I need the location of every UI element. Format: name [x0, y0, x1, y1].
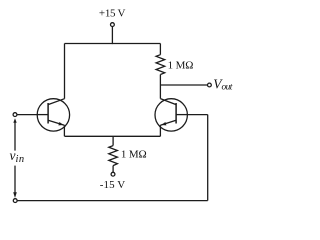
- wire resistor R1 top lead: [159, 44, 161, 55]
- svg-text:1 MΩ: 1 MΩ: [168, 60, 194, 72]
- wire bottom return: [17, 200, 208, 202]
- wire R2 bottom lead: [112, 166, 114, 173]
- node input terminal top: [13, 113, 17, 117]
- wire Q2 base lead: [187, 114, 207, 116]
- svg-text:1 MΩ: 1 MΩ: [121, 149, 147, 161]
- vin source arrow (up head): [14, 122, 16, 151]
- svg-text:-15 V: -15 V: [100, 179, 125, 191]
- transistor Q1 (left npn): [37, 99, 69, 131]
- wire top rail: [65, 43, 161, 45]
- node -15V supply terminal: [111, 172, 115, 176]
- svg-text:vin: vin: [10, 148, 25, 165]
- transistor Q2 (right npn, mirrored): [155, 99, 187, 132]
- wire Vout tap: [160, 84, 207, 86]
- wire Q1 emitter lead: [63, 125, 65, 136]
- node +15V supply terminal: [111, 23, 115, 27]
- wire resistor R1 bottom lead to collector node: [159, 75, 161, 99]
- svg-text:Vout: Vout: [213, 76, 233, 92]
- resistor R1 1 Mohm (collector load): [156, 55, 165, 75]
- svg-text:+15 V: +15 V: [99, 8, 126, 20]
- node input terminal bottom: [13, 199, 17, 203]
- node Vout terminal: [208, 83, 212, 87]
- wire right return drop: [207, 115, 209, 201]
- wire emitter bus: [65, 135, 161, 137]
- resistor R2 1 Mohm (tail): [109, 146, 118, 166]
- wire Q2 emitter lead: [159, 125, 161, 136]
- vin source arrow (down head): [14, 166, 16, 193]
- wire Q1 base lead to input terminal: [17, 114, 37, 116]
- wire +15V stem: [111, 27, 113, 45]
- wire left collector drop: [64, 44, 66, 99]
- wire tail stem: [112, 136, 114, 145]
